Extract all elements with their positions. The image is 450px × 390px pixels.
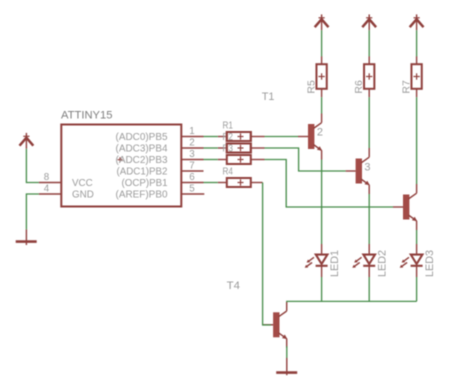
- svg-text:LED2: LED2: [377, 250, 389, 277]
- resistor R6: [364, 56, 374, 97]
- resistor R3: [218, 155, 265, 164]
- wire R4 to T4 base: [263, 183, 271, 326]
- svg-text:(ADC3)PB4: (ADC3)PB4: [116, 144, 169, 155]
- wire IC pin 2 to R2: [204, 147, 218, 149]
- wire R5 to T2 collector: [321, 97, 323, 113]
- svg-text:(ADC2)PB3: (ADC2)PB3: [116, 155, 169, 166]
- wire R1 to T2 base: [265, 136, 299, 138]
- svg-text:3: 3: [364, 161, 370, 173]
- wire IC pin 1 to R1: [204, 136, 218, 138]
- svg-text:(ADC0)PB5: (ADC0)PB5: [116, 132, 169, 143]
- wire R3 to T5 base: [265, 160, 394, 208]
- IC pin 3 stub: [181, 159, 203, 161]
- svg-text:5: 5: [189, 183, 195, 194]
- wire R7 to T5 collector: [416, 97, 418, 184]
- svg-text:8: 8: [44, 172, 50, 183]
- svg-text:R7: R7: [400, 80, 412, 94]
- svg-text:LED3: LED3: [424, 250, 436, 277]
- svg-text:7: 7: [189, 160, 194, 171]
- resistor R1 border over label: [227, 132, 251, 141]
- wire column2 VCC to R6: [368, 30, 370, 56]
- IC pin 6 stub: [181, 182, 203, 184]
- svg-text:T4: T4: [227, 280, 240, 292]
- wire IC pin 3 to R3: [204, 159, 218, 161]
- svg-text:R5: R5: [305, 80, 317, 94]
- wire IC pin 4 to GND1: [26, 194, 38, 229]
- svg-text:LED1: LED1: [329, 250, 341, 277]
- wire column1 VCC to R5: [321, 30, 323, 56]
- svg-text:GND: GND: [72, 190, 94, 201]
- resistor R2 border over label: [227, 144, 251, 153]
- wire T3 emitter to LED2: [368, 194, 370, 244]
- LED LED2: [352, 244, 375, 277]
- svg-text:ATTINY15: ATTINY15: [61, 110, 113, 122]
- svg-text:2: 2: [189, 137, 194, 148]
- svg-text:(OCP)PB1: (OCP)PB1: [122, 178, 168, 189]
- IC pin 7 stub: [181, 170, 203, 172]
- resistor R2: [218, 144, 265, 153]
- svg-text:VCC: VCC: [72, 178, 93, 189]
- transistor T3: [346, 148, 370, 194]
- wire column3 VCC to R7: [416, 30, 418, 56]
- wire VCC arrow to IC pin 8: [26, 149, 38, 183]
- svg-text:R1: R1: [223, 120, 234, 132]
- power VCC arrow P1 (left): [20, 133, 34, 149]
- IC pin 8 stub: [39, 182, 62, 184]
- wire LED3 to rail: [416, 277, 418, 301]
- svg-text:(ADC1)PB2: (ADC1)PB2: [117, 167, 168, 178]
- IC pin 1 stub: [181, 136, 203, 138]
- ground GND1 (left, below IC): [16, 229, 37, 245]
- op IC U1 ATTINY15 body: [61, 125, 181, 207]
- resistor R7: [411, 56, 421, 97]
- svg-text:1: 1: [189, 126, 194, 137]
- wire LED2 to rail: [368, 277, 370, 301]
- svg-text:R4: R4: [223, 166, 234, 178]
- resistor R4: [218, 178, 263, 187]
- wire R2 to T3 base: [265, 148, 346, 171]
- resistor R1: [218, 132, 265, 141]
- LED LED1: [305, 244, 328, 277]
- transistor T2: [298, 114, 322, 160]
- svg-text:6: 6: [189, 172, 195, 183]
- wire cathode rail to T4 collector: [287, 300, 417, 303]
- power VCC arrow P3 (column 2 top): [362, 14, 376, 30]
- svg-text:3: 3: [189, 149, 195, 160]
- ground GND2 (bottom, under T4 emitter): [276, 358, 297, 376]
- svg-text:R6: R6: [353, 80, 365, 94]
- IC pin 2 stub: [181, 147, 203, 149]
- wire R6 to T3 collector: [368, 97, 370, 148]
- power VCC arrow P4 (column 3 top): [410, 14, 424, 30]
- IC pin 4 stub: [39, 193, 62, 195]
- resistor R5: [316, 56, 326, 97]
- power VCC arrow P2 (column 1 top): [315, 14, 329, 30]
- wire T5 emitter to LED3: [416, 230, 418, 244]
- wire LED1 to rail: [321, 277, 323, 301]
- transistor T4: [263, 302, 287, 348]
- wire IC pin 6 to R4: [204, 182, 218, 184]
- LED LED3: [400, 244, 423, 277]
- wire T4 emitter to GND2: [286, 346, 288, 358]
- transistor T5: [393, 184, 417, 230]
- svg-text:(AREF)PB0: (AREF)PB0: [116, 190, 169, 201]
- svg-text:4: 4: [44, 183, 50, 194]
- IC origin cross: [118, 157, 123, 162]
- IC pin 5 stub: [181, 193, 204, 195]
- svg-text:T1: T1: [262, 91, 275, 103]
- wire T2 emitter to LED1: [321, 160, 323, 245]
- svg-text:2: 2: [317, 126, 323, 138]
